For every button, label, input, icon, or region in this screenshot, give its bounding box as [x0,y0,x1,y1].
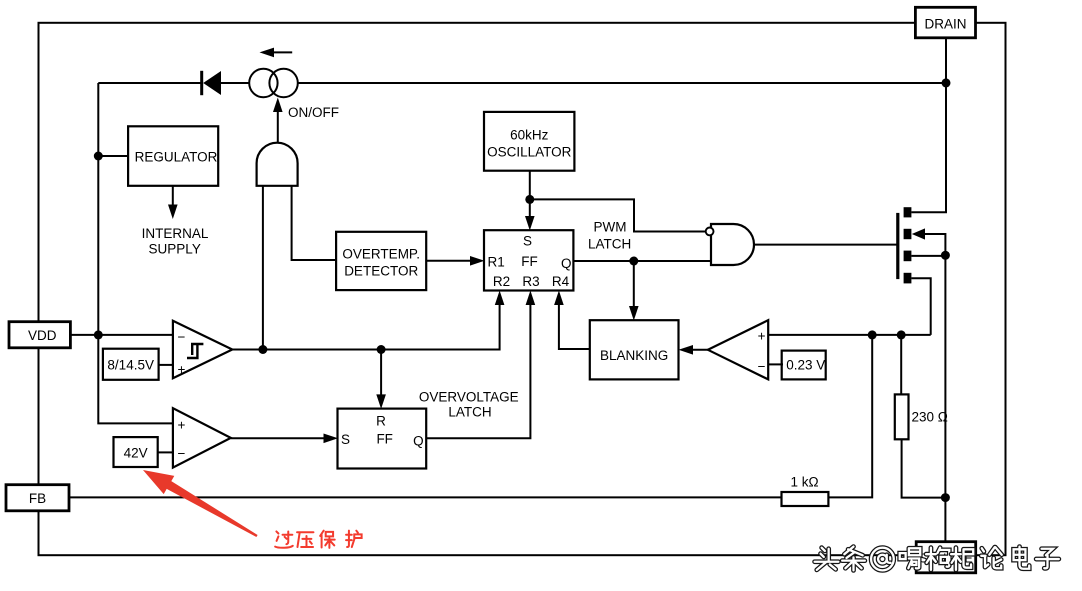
wire node to regulator [98,155,128,157]
overvoltage latch U7 R FF box [338,409,427,469]
arrow regulator to internal supply [168,186,178,219]
svg-text:OVERVOLTAGE: OVERVOLTAGE [419,390,519,405]
current source I1 two circles [249,69,298,97]
arrow oscillator to S input [525,199,535,230]
diode D1 [200,71,221,95]
svg-text:R3: R3 [522,274,539,289]
0.23 V box [768,351,826,380]
wire diode to current source [221,82,249,84]
arrow comparator U6 to blanking [679,345,708,355]
svg-text:REGULATOR: REGULATOR [135,149,218,164]
wire and gate left input from comparator U2 output [262,186,264,350]
arrow Q down to blanking [629,261,639,321]
svg-text:LATCH: LATCH [448,405,491,420]
label PWM LATCH [588,220,631,252]
MOSFET sense segment [904,251,946,262]
VDD pin [9,322,70,348]
svg-text:1 kΩ: 1 kΩ [790,475,818,490]
arrow overtemp to R1 [426,256,484,266]
resistor 1 kOhm [782,475,829,507]
svg-text:FF: FF [521,254,538,269]
node 1k tap [868,330,877,339]
42V box [114,437,173,467]
wire oscillator down [529,171,531,200]
MOSFET source segment [904,273,931,335]
svg-text:42V: 42V [124,446,148,461]
comparator U2 hysteresis [173,321,232,379]
svg-text:−: − [178,330,186,345]
node oscillator branch [525,195,534,204]
FB pin [6,485,69,511]
svg-text:SUPPLY: SUPPLY [149,242,201,257]
svg-text:VDD: VDD [28,328,57,343]
svg-text:INTERNAL: INTERNAL [142,226,209,241]
pwm latch U5 S FF box [484,230,573,290]
node overvoltage latch tap [377,345,386,354]
arrow current direction left [260,48,293,58]
svg-text:230 Ω: 230 Ω [912,410,948,425]
svg-text:−: − [758,359,766,374]
svg-text:+: + [758,329,766,344]
wire VDD box to comparator U2 minus input [70,334,172,336]
OVERTEMP. DETECTOR box [336,232,426,290]
red label guo ya bao hu [275,531,361,548]
svg-text:R2: R2 [493,274,510,289]
MOSFET drain segment [904,207,912,217]
wire current source to drain node [298,82,946,84]
8/14.5V box [103,349,173,380]
wire and gate right input to overtemp detector [292,186,337,260]
node 230 tap [897,330,906,339]
svg-text:S: S [341,432,350,447]
nand gate U4 [711,224,754,265]
wire 230 tap down [900,335,902,395]
wire 1k to plus node [828,335,872,498]
node source junction [941,493,950,502]
nand input bubble [706,228,714,236]
svg-text:+: + [178,362,186,377]
arrow and gate to current source ON/OFF [273,98,283,143]
node Q branch [629,257,638,266]
node VDD tap [94,330,103,339]
wire FB to 1k resistor [69,496,782,498]
svg-text:R: R [376,414,386,429]
watermark toutiao [815,547,1059,571]
svg-text:Q: Q [561,256,572,271]
svg-text:Q: Q [413,434,424,449]
label OVERVOLTAGE LATCH [419,390,519,420]
svg-text:BLANKING: BLANKING [600,348,668,363]
svg-text:DETECTOR: DETECTOR [344,263,418,278]
BLANKING box [590,320,679,379]
svg-text:S: S [523,234,532,249]
comparator U3 overvoltage [173,408,231,467]
arrow comparator U3 to S of overvoltage latch [231,434,338,444]
wire DRAIN pin down to MOSFET drain [911,38,946,213]
svg-text:LATCH: LATCH [588,237,631,252]
and gate U1 [257,143,298,186]
svg-text:+: + [178,418,186,433]
DRAIN pin [915,7,975,38]
node drain rail [942,78,951,87]
wire nand output to gate [754,244,897,246]
svg-text:−: − [178,446,186,461]
node and gate input tap [258,345,267,354]
svg-text:8/14.5V: 8/14.5V [107,358,154,373]
comparator U6 current limit [708,320,768,379]
svg-text:0.23 V: 0.23 V [786,358,825,373]
60kHz OSCILLATOR box [484,112,574,171]
wire comparator U6 plus input [768,334,931,336]
svg-text:PWM: PWM [594,220,627,235]
red annotation arrow [143,470,258,537]
svg-text:FF: FF [376,432,393,447]
arrow down to overvoltage latch R [376,350,386,409]
wire VDD bus vertical with branch to comparator U3 plus input [98,83,173,423]
svg-text:OVERTEMP.: OVERTEMP. [342,246,420,261]
MOSFET body segment with arrow [904,228,946,541]
svg-text:ON/OFF: ON/OFF [288,105,339,120]
node body sense junction [941,251,950,260]
svg-text:DRAIN: DRAIN [924,17,966,32]
svg-text:FB: FB [29,491,46,506]
arrow blanking to R4 [554,291,590,350]
resistor 230 Ohm [895,394,948,439]
svg-text:R1: R1 [488,255,505,270]
wire overvoltage latch Q to R3 [426,291,535,439]
label internal supply [142,226,209,257]
REGULATOR box [128,126,218,186]
node regulator tap [94,152,103,161]
svg-text:R4: R4 [552,274,570,289]
SOURCE pin [916,542,976,573]
wire comparator U2 output to R2 [232,291,504,350]
wire oscillator branch to nand U4 top input [530,199,706,231]
MOSFET Q1 gate bar [896,213,899,279]
wire 230 bottom to source node [902,439,946,497]
svg-text:OSCILLATOR: OSCILLATOR [487,145,572,160]
wire Q output to nand U4 bottom input [574,260,711,262]
wire top rail from VDD bus corner to diode [98,82,200,84]
svg-text:60kHz: 60kHz [510,127,549,142]
